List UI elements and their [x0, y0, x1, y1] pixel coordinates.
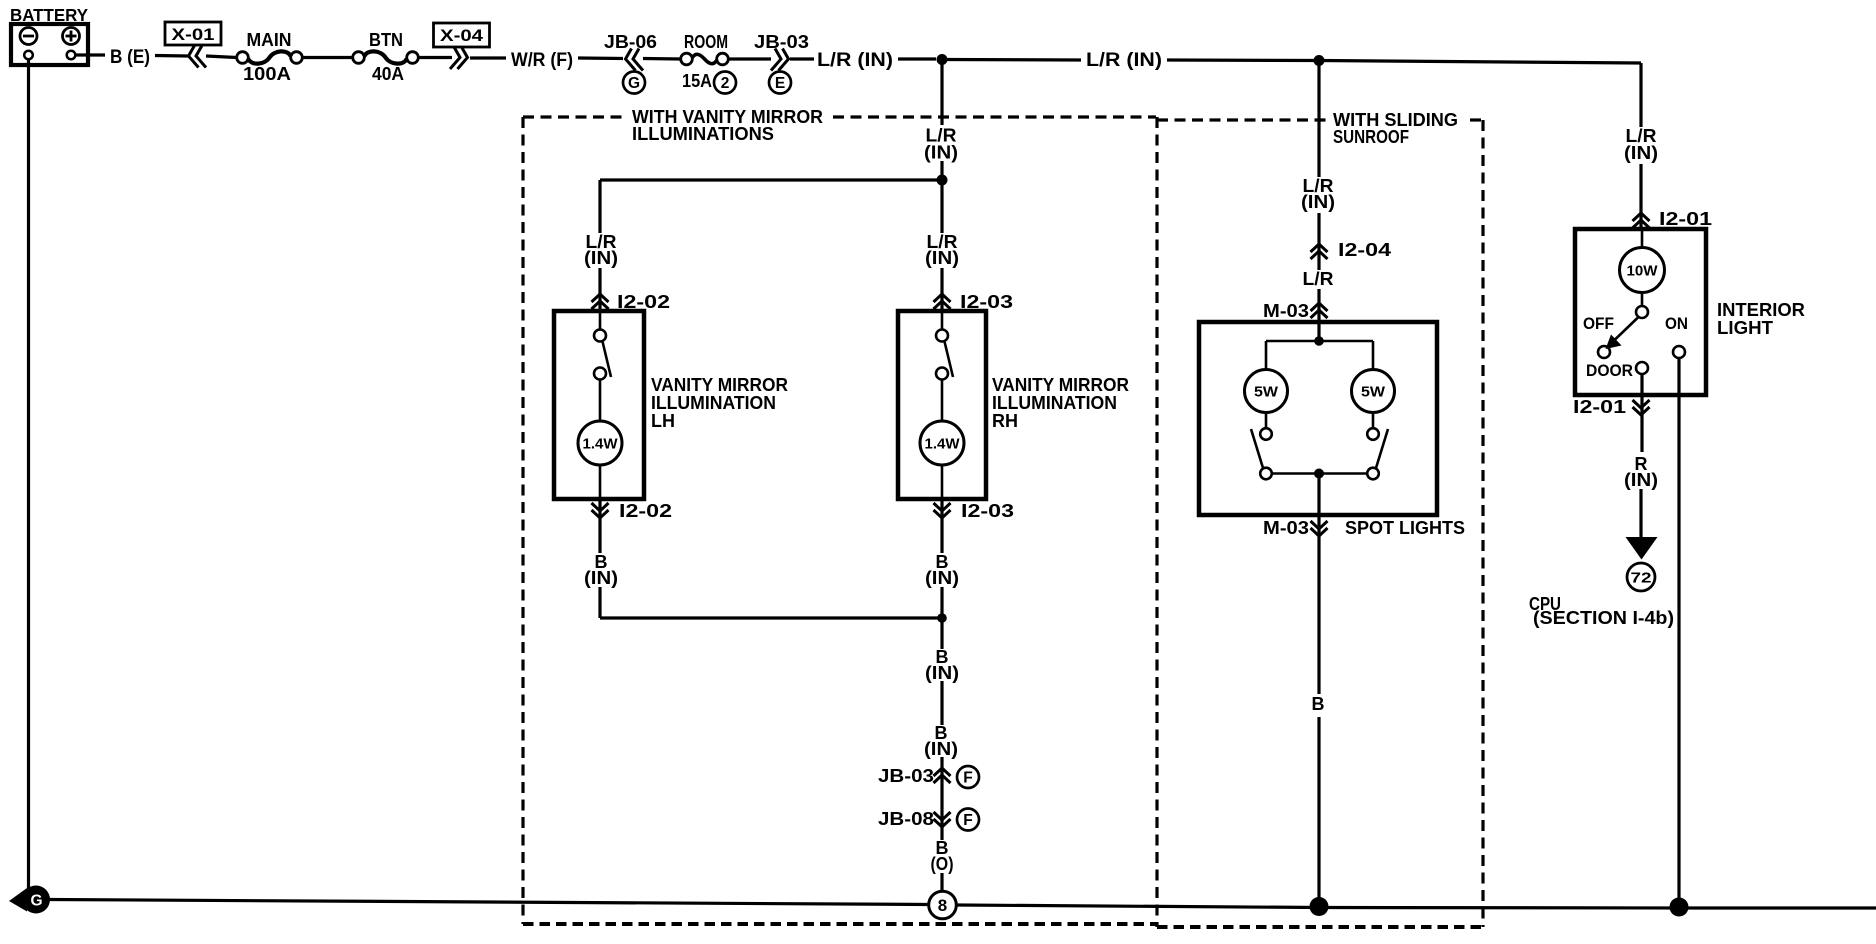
label wire L/R sunroof [1299, 269, 1339, 289]
vanity mirror illumination LH unit box [554, 311, 644, 499]
svg-text:LIGHT: LIGHT [1717, 318, 1773, 338]
switch blade with arrow to OFF [1606, 317, 1640, 350]
wire RH branch down to lamp RH [940, 180, 943, 311]
svg-text:(IN): (IN) [925, 663, 959, 683]
svg-text:(SECTION I-4b): (SECTION I-4b) [1533, 608, 1674, 628]
connector X-04 chevron [450, 47, 468, 69]
switch LH contact bottom [594, 368, 606, 380]
label wire R (IN) [1624, 454, 1658, 490]
svg-text:BTN: BTN [369, 30, 403, 50]
wire JB-06 to ROOM fuse [643, 57, 681, 61]
svg-text:10W: 10W [1627, 263, 1659, 280]
svg-text:F: F [963, 770, 972, 787]
switch left contact bottom [1260, 468, 1272, 480]
svg-text:L/R (IN): L/R (IN) [1086, 50, 1162, 71]
circled fuse number 2 [714, 72, 736, 94]
label wire L/R (IN) vanity feed [922, 125, 962, 163]
junction sunroof ground node [1310, 897, 1329, 916]
joint box connector JB-03 chevron [771, 49, 789, 71]
svg-text:E: E [775, 75, 785, 92]
wire to bulb right [1372, 341, 1375, 370]
svg-text:B (E): B (E) [110, 47, 150, 68]
wire bulb to switch pivot [1641, 293, 1644, 307]
wire LH bulb to box bottom [599, 465, 602, 499]
svg-text:72: 72 [1631, 570, 1652, 587]
switch left blade [1251, 429, 1263, 468]
switch RH contact top [936, 330, 948, 342]
battery negative post [24, 51, 33, 60]
fusible link MAIN 100A [237, 52, 249, 64]
connector I2-02 chevron in [592, 294, 609, 309]
svg-text:2: 2 [721, 75, 730, 92]
switch ON contact [1673, 346, 1685, 358]
connector M-03 chevron out [1311, 521, 1328, 536]
wire inside to bulb 10W [1641, 231, 1644, 248]
svg-text:X-01: X-01 [172, 26, 215, 44]
spot lights unit box [1199, 322, 1437, 515]
wire L/R(IN) to node A [898, 57, 936, 60]
connector JB-08 chevron [934, 812, 951, 827]
label wire L/R (IN) LH [581, 232, 621, 268]
wire LH down to join [598, 587, 601, 618]
connector I2-01 chevron out [1633, 400, 1650, 415]
svg-text:MAIN: MAIN [247, 30, 292, 50]
switch RH blade [945, 342, 954, 378]
wire B(E) to connector X-01 [155, 54, 188, 58]
joint box connector JB-06 chevron [626, 49, 644, 71]
svg-text:(IN): (IN) [925, 568, 959, 588]
svg-text:VANITY MIRROR: VANITY MIRROR [651, 375, 788, 395]
switch RH contact bottom [936, 368, 948, 380]
wire RH inside to switch [941, 311, 944, 330]
svg-text:I2-01: I2-01 [1573, 397, 1626, 417]
wire to bulb left [1265, 341, 1268, 370]
svg-text:LH: LH [651, 411, 675, 431]
fuse ROOM 15A [681, 53, 693, 65]
connector JB-03 chevron [934, 768, 951, 783]
label wire L/R (IN) interior [1621, 126, 1661, 164]
switch pivot contact [1636, 306, 1648, 318]
wire ON contact to ground rail [1677, 358, 1680, 905]
svg-text:JB-03: JB-03 [878, 766, 934, 786]
label wire B (O) [926, 838, 959, 874]
fusible link BTN 40A [353, 52, 365, 64]
svg-text:(IN): (IN) [924, 739, 958, 759]
svg-text:L/R: L/R [1303, 269, 1334, 289]
junction node A [937, 54, 948, 65]
svg-text:15A: 15A [682, 71, 712, 91]
wire vanity split to LH branch [600, 178, 942, 181]
svg-text:M-03: M-03 [1263, 301, 1309, 321]
connector label X-04 [434, 23, 490, 47]
connector I2-03 chevron in [934, 294, 951, 309]
label wire L/R (IN) RH [922, 232, 962, 268]
wire bulb left to switch [1265, 413, 1268, 429]
svg-text:8: 8 [938, 896, 947, 915]
svg-text:M-03: M-03 [1263, 518, 1309, 538]
circled terminal G [623, 72, 645, 94]
svg-text:L/R (IN): L/R (IN) [817, 50, 893, 71]
wire X-04 to W/R(F) [470, 56, 506, 59]
svg-text:RH: RH [992, 411, 1018, 431]
junction spot lights ground node [1314, 469, 1324, 479]
connector I2-01 chevron in [1633, 213, 1650, 228]
label wire L/R (IN) sunroof [1299, 176, 1339, 213]
wire node B to interior light branch [1319, 61, 1641, 64]
switch LH blade [603, 342, 612, 378]
battery negative terminal symbol [20, 28, 37, 45]
svg-text:JB-03: JB-03 [754, 32, 809, 52]
dashed box WITH SLIDING SUNROOF [1157, 120, 1483, 927]
interior light unit box [1575, 229, 1706, 395]
wire RH switch to bulb [941, 380, 944, 422]
vanity mirror illumination RH unit box [898, 311, 986, 499]
wire node A down into vanity box [940, 60, 943, 181]
svg-text:(IN): (IN) [584, 568, 618, 588]
circled terminal F lower [957, 809, 979, 831]
svg-text:I2-01: I2-01 [1659, 209, 1712, 229]
connector I2-03 chevron out [934, 503, 951, 518]
connector I2-04 chevron [1311, 244, 1328, 259]
svg-text:ILLUMINATION: ILLUMINATION [651, 393, 776, 413]
bulb spot right 5W [1352, 370, 1395, 413]
label wire B (IN) RH [923, 552, 961, 588]
battery positive post [67, 51, 76, 60]
wire ground rail left [49, 900, 928, 905]
junction ON ground node [1670, 898, 1689, 917]
label wire B (IN) LH [582, 552, 620, 588]
bulb spot left 5W [1245, 370, 1288, 413]
CPU pin 72 [1627, 563, 1655, 591]
wire JB-03 to L/R(IN) [790, 57, 814, 60]
circled terminal E [769, 72, 791, 94]
switch LH contact top [594, 330, 606, 342]
wire LH across to RH join node [600, 616, 942, 619]
wire battery to B(E) [75, 53, 105, 56]
svg-text:VANITY MIRROR: VANITY MIRROR [992, 375, 1129, 395]
battery positive terminal symbol [63, 28, 80, 45]
switch left contact top [1260, 428, 1272, 440]
ground G [9, 886, 50, 914]
svg-text:G: G [30, 893, 42, 910]
label wire B sunroof [1309, 694, 1329, 717]
svg-text:ROOM: ROOM [684, 32, 728, 52]
connector I2-02 chevron out [592, 503, 609, 518]
switch DOOR contact [1636, 362, 1648, 374]
wire vanity ground run [940, 618, 943, 891]
connector X-01 chevron [189, 46, 207, 68]
wire ROOM to JB-03 [729, 57, 772, 60]
wire LH branch down to lamp LH [598, 180, 601, 311]
svg-text:1.4W: 1.4W [583, 436, 619, 453]
svg-text:(IN): (IN) [584, 248, 618, 268]
label wire B (IN) lower1 [922, 647, 962, 683]
svg-text:5W: 5W [1254, 384, 1279, 401]
wire LH inside to switch [599, 311, 602, 330]
junction node B [1314, 55, 1325, 66]
junction vanity split node [937, 175, 948, 186]
wire L/R(IN) to node B [1167, 58, 1319, 62]
svg-text:(IN): (IN) [1624, 143, 1658, 163]
svg-text:I2-04: I2-04 [1338, 240, 1391, 260]
svg-text:(IN): (IN) [924, 143, 958, 163]
arrow into CPU [1626, 537, 1658, 560]
svg-text:INTERIOR: INTERIOR [1717, 300, 1805, 320]
dashed box WITH VANITY MIRROR ILLUMINATIONS [523, 117, 1157, 927]
svg-text:B: B [1312, 694, 1325, 714]
svg-text:I2-02: I2-02 [619, 501, 672, 521]
svg-text:DOOR: DOOR [1586, 362, 1633, 380]
wire LH out of box [598, 499, 601, 553]
svg-text:I2-03: I2-03 [961, 501, 1014, 521]
svg-text:OFF: OFF [1583, 315, 1614, 333]
wire down to interior light [1639, 63, 1642, 229]
wire spot lights top rail [1266, 340, 1373, 343]
wire ground rail right [957, 905, 1876, 908]
wire sunroof to ground rail [1317, 717, 1320, 904]
wire MAIN to BTN fuse [303, 56, 353, 59]
svg-text:(IN): (IN) [1624, 470, 1658, 490]
junction spot lights feed node [1314, 336, 1324, 346]
wire BTN to connector X-04 [419, 56, 453, 59]
switch right blade [1376, 429, 1388, 468]
svg-text:(IN): (IN) [1301, 192, 1335, 212]
bulb interior 10W [1620, 248, 1665, 293]
switch right contact bottom [1367, 468, 1379, 480]
connector label X-01 [165, 22, 221, 45]
circled terminal F upper [957, 766, 979, 788]
junction vanity ground join node [937, 613, 947, 623]
switch OFF contact [1598, 346, 1610, 358]
bulb RH 1.4W [920, 421, 964, 465]
svg-text:ILLUMINATION: ILLUMINATION [992, 393, 1117, 413]
svg-text:1.4W: 1.4W [925, 436, 961, 453]
svg-text:(O): (O) [931, 854, 954, 874]
svg-text:G: G [628, 75, 640, 92]
svg-text:40A: 40A [372, 64, 404, 84]
ground point 8 [929, 891, 957, 919]
wire node A to L/R(IN) mid [942, 58, 1081, 62]
wire RH out of box [940, 499, 943, 618]
wire DOOR contact out of box [1640, 374, 1643, 452]
wire spot lights bottom rail [1272, 472, 1367, 475]
connector M-03 chevron in [1311, 303, 1328, 318]
svg-text:X-04: X-04 [440, 27, 484, 45]
wire X-01 to MAIN fuse [206, 56, 237, 58]
switch right contact top [1367, 428, 1379, 440]
label wire B (IN) lower2 [921, 723, 961, 759]
svg-text:W/R (F): W/R (F) [511, 50, 573, 71]
svg-text:(IN): (IN) [925, 248, 959, 268]
svg-text:JB-08: JB-08 [878, 809, 934, 829]
wire node B down to spot lights [1317, 61, 1320, 342]
svg-text:SUNROOF: SUNROOF [1333, 127, 1409, 147]
wire bulb right to switch [1372, 413, 1375, 429]
wire battery negative down [27, 59, 30, 897]
svg-text:ON: ON [1665, 315, 1688, 333]
wire W/R(F) to JB-06 [578, 56, 623, 60]
wire RH bulb to box bottom [941, 465, 944, 499]
battery B1 [11, 24, 88, 65]
svg-text:ILLUMINATIONS: ILLUMINATIONS [632, 124, 774, 144]
wire spot lights out [1317, 474, 1320, 695]
svg-text:SPOT LIGHTS: SPOT LIGHTS [1345, 518, 1465, 538]
svg-text:5W: 5W [1361, 384, 1386, 401]
svg-text:F: F [963, 812, 972, 829]
wire LH switch to bulb [599, 380, 602, 422]
bulb LH 1.4W [578, 421, 622, 465]
svg-text:100A: 100A [243, 64, 291, 84]
wire R(IN) to CPU arrow [1639, 489, 1642, 538]
